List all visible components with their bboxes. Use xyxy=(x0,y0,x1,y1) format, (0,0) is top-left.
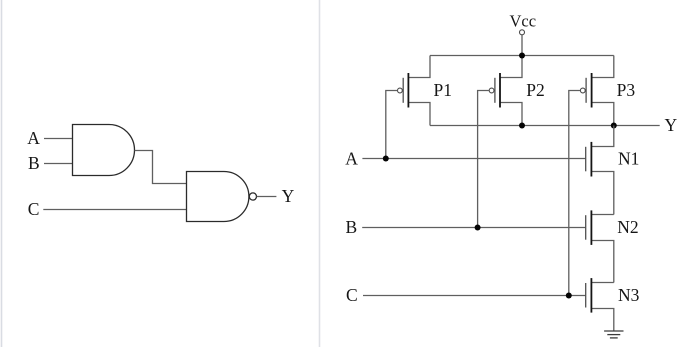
N1 gate bar xyxy=(585,147,587,172)
AND gate U1 xyxy=(73,125,135,176)
svg-text:N2: N2 xyxy=(617,217,638,237)
NAND output bubble xyxy=(249,193,256,200)
svg-text:C: C xyxy=(346,285,358,305)
transistor N1 xyxy=(586,126,640,215)
P3 gate bubble xyxy=(580,88,585,93)
svg-text:A: A xyxy=(345,148,358,168)
junction P2 drain dot xyxy=(519,123,525,129)
svg-text:Vcc: Vcc xyxy=(510,12,537,31)
P1 channel bar xyxy=(407,73,409,108)
P1 gate bubble xyxy=(398,88,403,93)
P2 gate bar xyxy=(494,78,496,103)
svg-text:N1: N1 xyxy=(618,148,639,168)
junction A / P1 gate dot xyxy=(383,156,389,162)
wire B to AND input xyxy=(44,163,73,165)
wire P3 source lead to Vcc rail xyxy=(592,56,614,78)
svg-text:Y: Y xyxy=(282,186,295,206)
svg-text:N3: N3 xyxy=(618,285,640,305)
transistor N2 xyxy=(586,210,639,282)
wire P3 drain lead to Y rail xyxy=(592,103,614,126)
wire NAND output to Y xyxy=(257,196,277,198)
junction P3/N1 drain dot xyxy=(611,123,617,129)
NAND gate U2 xyxy=(187,172,249,222)
svg-text:Y: Y xyxy=(664,115,677,135)
P1 gate bar xyxy=(402,78,404,103)
wire N1 source lead down to N2 drain xyxy=(591,172,613,215)
svg-text:A: A xyxy=(27,128,40,148)
wire N2 source lead down to N3 drain xyxy=(591,241,613,283)
wire C to N3 gate xyxy=(363,295,586,297)
Vcc rail wire xyxy=(430,55,614,57)
P3 channel bar xyxy=(591,73,593,108)
transistor P2 xyxy=(478,73,545,228)
wire N3 source lead down to ground xyxy=(591,309,613,332)
Vcc terminal circle xyxy=(520,30,525,35)
junction C / P3 gate dot xyxy=(566,293,572,299)
svg-text:B: B xyxy=(28,153,40,173)
N3 gate bar xyxy=(585,283,587,308)
panel left border xyxy=(1,0,3,347)
P2 gate bubble xyxy=(489,88,494,93)
svg-text:P2: P2 xyxy=(526,80,544,100)
wire Vcc stem down through rail to P2 source xyxy=(500,35,522,78)
wire P1 gate to node A xyxy=(386,91,398,159)
wire P2 gate to node B xyxy=(478,91,490,228)
wire B to N2 gate xyxy=(362,227,586,229)
wire N1 drain lead to Y rail xyxy=(591,126,613,147)
wire N2 drain lead xyxy=(591,214,613,216)
N2 channel bar xyxy=(590,210,592,245)
transistor P1 xyxy=(386,56,452,159)
wire C to NAND bottom input xyxy=(43,209,186,211)
P3 gate bar xyxy=(585,78,587,103)
ground xyxy=(604,331,623,338)
wire N3 drain lead xyxy=(591,282,613,284)
wire P2 drain lead to Y rail xyxy=(500,103,522,126)
transistor N3 xyxy=(586,278,640,331)
svg-text:P1: P1 xyxy=(434,80,452,100)
N2 gate bar xyxy=(585,215,587,240)
svg-text:C: C xyxy=(28,199,40,219)
transistor P3 xyxy=(569,56,636,296)
svg-text:B: B xyxy=(346,217,358,237)
wire A to AND input xyxy=(44,138,73,140)
svg-text:P3: P3 xyxy=(617,80,636,100)
wire P3 gate to node C xyxy=(569,91,581,296)
wire P1 drain lead to Y rail xyxy=(408,103,430,126)
P2 channel bar xyxy=(499,73,501,108)
N1 channel bar xyxy=(590,142,592,177)
wire P1 source lead to Vcc rail xyxy=(408,56,430,78)
Y output rail wire xyxy=(430,125,660,127)
panel divider xyxy=(319,0,321,347)
junction B / P2 gate dot xyxy=(475,225,481,231)
N3 channel bar xyxy=(590,278,592,313)
wire A to N1 gate xyxy=(362,158,585,160)
junction Vcc rail dot xyxy=(519,53,525,59)
wire AND output to NAND top input xyxy=(135,151,187,184)
